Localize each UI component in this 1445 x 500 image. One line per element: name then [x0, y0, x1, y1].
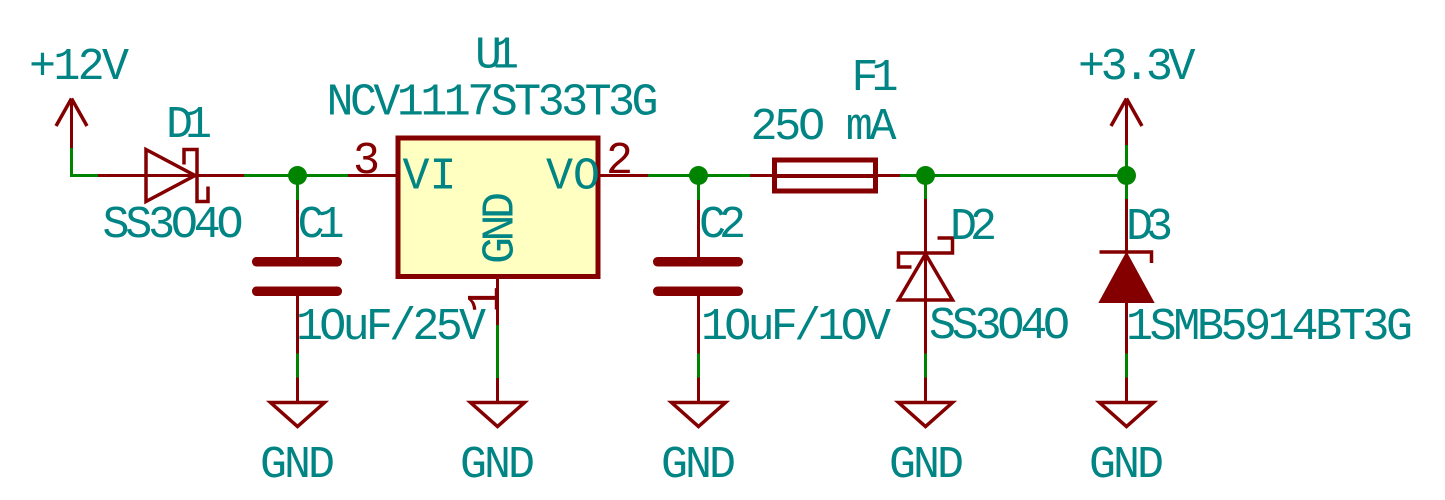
svg-text:VO: VO [546, 152, 600, 203]
svg-text:1SMB5914BT3G: 1SMB5914BT3G [1126, 302, 1413, 353]
svg-text:F1: F1 [852, 53, 899, 104]
capacitor C2 plates [653, 257, 743, 296]
svg-text:SS3O4O: SS3O4O [103, 200, 244, 251]
wire F1 to node C [900, 174, 1128, 177]
svg-text:U1: U1 [475, 31, 519, 82]
svg-text:NCV1117ST33T3G: NCV1117ST33T3G [327, 78, 659, 129]
wire +3.3V to junction D [1125, 145, 1128, 176]
svg-text:VI: VI [403, 152, 457, 203]
wire junction B down to C2 [697, 176, 700, 201]
svg-text:1OuF/25V: 1OuF/25V [296, 302, 486, 353]
svg-text:+12V: +12V [29, 42, 129, 93]
wire junction A down to C1 [296, 176, 299, 201]
svg-text:D3: D3 [1126, 202, 1173, 253]
svg-text:GND: GND [460, 440, 535, 491]
wire C2 to ground [697, 354, 700, 378]
svg-text:2: 2 [606, 136, 633, 187]
junction node A (D1/C1/U1) [288, 166, 307, 185]
wire U1 pin 2 to node B [648, 174, 750, 177]
wire junction D down to D3 [1125, 176, 1128, 200]
fuse F1 body [775, 160, 876, 191]
svg-text:25O mA: 25O mA [751, 102, 897, 153]
wire C1 to ground [296, 354, 299, 378]
svg-text:C2: C2 [699, 200, 746, 251]
wire D2 to ground [924, 354, 927, 378]
diode D3 body (Zener, filled) [1100, 252, 1154, 302]
svg-text:D2: D2 [950, 202, 997, 253]
svg-text:3: 3 [353, 136, 380, 187]
capacitor C1 pins [296, 200, 299, 354]
ground symbol (C2) [672, 378, 726, 427]
svg-text:GND: GND [260, 440, 335, 491]
diode D2 body (Schottky) [899, 238, 953, 300]
svg-text:C1: C1 [298, 200, 345, 251]
U1 pin 1 GND [496, 276, 499, 325]
diode D1 body (Schottky) [146, 150, 208, 202]
capacitor C2 pins [697, 200, 700, 354]
ground symbol (D2) [899, 378, 953, 427]
svg-text:GND: GND [476, 192, 527, 264]
junction node C (F1/D2) [916, 166, 935, 185]
U1 pin 3 VI [348, 174, 398, 177]
svg-text:+3.3V: +3.3V [1078, 42, 1196, 93]
power flag +3.3V [1111, 99, 1142, 146]
junction node B (VO/C2/F1) [689, 166, 708, 185]
fuse F1 element line [772, 174, 878, 178]
U1 pin 2 VO [598, 174, 648, 177]
wire U1 pin1 to ground [496, 325, 499, 378]
fuse F1 pins [750, 174, 900, 177]
diode D2 pins [924, 199, 927, 354]
svg-text:D1: D1 [166, 100, 212, 151]
diode D1 pins [98, 174, 244, 177]
wire D3 to ground [1125, 354, 1128, 378]
svg-text:GND: GND [661, 440, 736, 491]
junction node D (rail/D3/+3.3V) [1117, 166, 1136, 185]
wire D1 cathode to U1 pin 3 [244, 174, 348, 177]
ground symbol (C1) [271, 378, 325, 427]
svg-text:GND: GND [889, 440, 964, 491]
capacitor C1 plates [252, 257, 342, 296]
ground symbol (U1) [471, 378, 525, 427]
wire junction C down to D2 [924, 176, 927, 200]
svg-text:GND: GND [1089, 440, 1164, 491]
svg-text:1: 1 [461, 286, 512, 313]
svg-text:1OuF/1OV: 1OuF/1OV [701, 302, 891, 353]
diode D3 pins [1125, 199, 1128, 354]
power flag +12V [56, 99, 87, 149]
wire from +12V down to rail [72, 148, 99, 176]
ground symbol (D3) [1100, 378, 1154, 427]
regulator U1 body [398, 138, 598, 277]
svg-text:SS3O4O: SS3O4O [929, 301, 1070, 352]
